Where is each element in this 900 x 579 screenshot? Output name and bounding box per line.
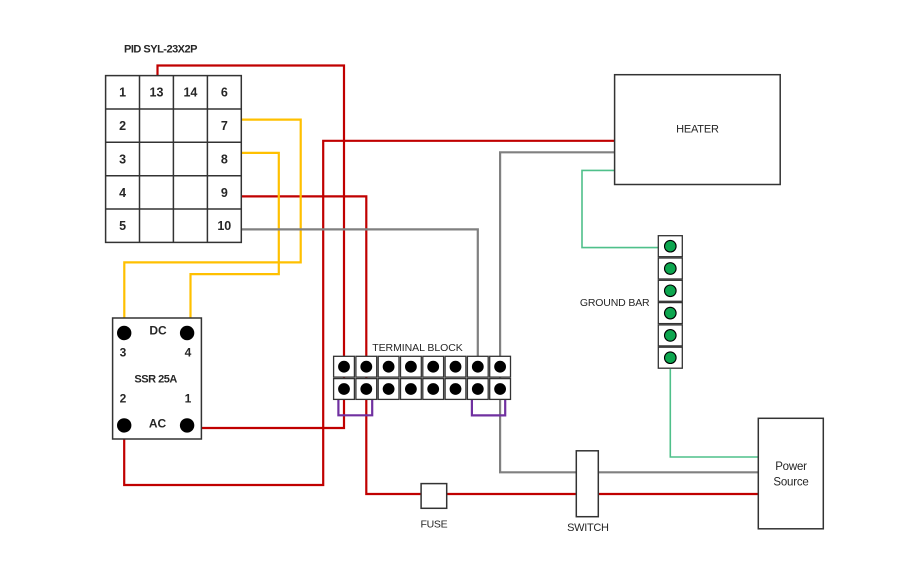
svg-text:SWITCH: SWITCH: [567, 522, 609, 534]
svg-text:2: 2: [120, 392, 127, 406]
svg-text:AC: AC: [149, 417, 167, 431]
svg-text:2: 2: [119, 119, 126, 133]
svg-text:1: 1: [185, 392, 192, 406]
svg-text:PID SYL-23X2P: PID SYL-23X2P: [124, 44, 197, 56]
svg-text:1: 1: [119, 86, 126, 100]
svg-text:Power: Power: [775, 461, 807, 473]
svg-text:HEATER: HEATER: [676, 124, 719, 136]
svg-text:14: 14: [183, 86, 197, 100]
svg-text:TERMINAL BLOCK: TERMINAL BLOCK: [372, 342, 463, 354]
svg-text:FUSE: FUSE: [420, 519, 447, 531]
svg-text:9: 9: [221, 186, 228, 200]
svg-text:8: 8: [221, 152, 228, 166]
svg-text:Source: Source: [773, 477, 808, 489]
svg-text:3: 3: [119, 152, 126, 166]
svg-text:GROUND BAR: GROUND BAR: [580, 297, 650, 309]
svg-text:3: 3: [120, 346, 127, 360]
svg-text:SSR 25A: SSR 25A: [134, 374, 177, 386]
svg-text:4: 4: [119, 186, 126, 200]
svg-text:5: 5: [119, 219, 126, 233]
svg-text:4: 4: [185, 346, 192, 360]
svg-text:7: 7: [221, 119, 228, 133]
svg-text:DC: DC: [149, 324, 167, 338]
svg-text:6: 6: [221, 86, 228, 100]
svg-text:10: 10: [217, 219, 231, 233]
svg-text:13: 13: [150, 86, 164, 100]
